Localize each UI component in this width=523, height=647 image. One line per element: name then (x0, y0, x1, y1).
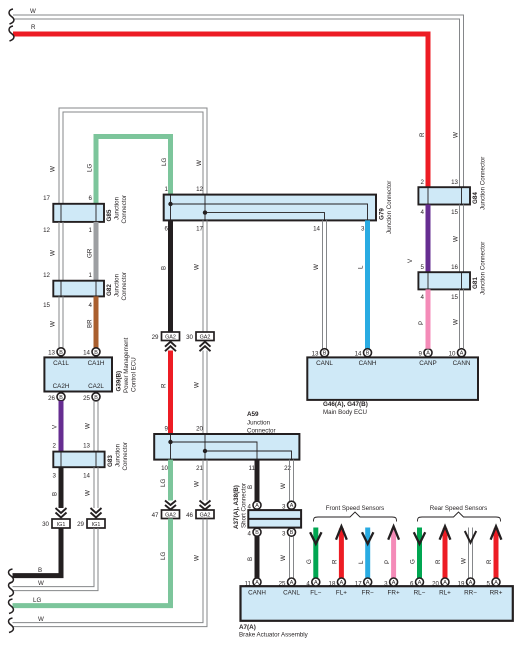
svg-text:12: 12 (43, 272, 50, 279)
sensor wire P FR+ (arrow up) (384, 526, 399, 578)
pin 10 A of G46 (449, 349, 466, 358)
svg-text:R: R (435, 559, 442, 564)
connector 30 GA2 (186, 332, 214, 351)
wire B from G79 pin6 to 29 GA2 (168, 220, 173, 332)
svg-text:CANH: CANH (359, 360, 377, 367)
svg-text:A: A (443, 580, 447, 586)
pin 6 A RL- (410, 578, 423, 588)
svg-text:3: 3 (384, 581, 388, 588)
svg-text:B: B (59, 350, 63, 356)
svg-text:W: W (50, 250, 57, 256)
wire W between G82 and G39 (59, 296, 63, 348)
sensor wire R RL+ (arrow up) (435, 526, 450, 578)
svg-text:W: W (38, 616, 44, 623)
svg-text:47: 47 (152, 512, 159, 519)
svg-text:14: 14 (313, 226, 320, 233)
svg-text:1: 1 (89, 227, 93, 234)
svg-text:12: 12 (196, 186, 203, 193)
svg-text:G85: G85 (106, 209, 113, 221)
wire W from A59 pin21 to 46 GA2 (203, 460, 207, 501)
svg-text:LG: LG (87, 164, 94, 172)
svg-text:GA2: GA2 (200, 335, 211, 341)
pin 25 B of G39 (83, 393, 100, 402)
svg-text:A: A (494, 580, 498, 586)
brace continuation top W (9, 9, 14, 24)
svg-text:3: 3 (282, 531, 286, 538)
svg-text:B: B (161, 266, 168, 270)
pin 18 A FL+ (329, 578, 346, 588)
svg-text:13: 13 (451, 179, 458, 186)
svg-text:LG: LG (160, 552, 167, 560)
svg-text:13: 13 (48, 350, 55, 357)
svg-text:G84: G84 (472, 192, 479, 204)
svg-text:B: B (366, 351, 370, 357)
brace continuation W bottom left (9, 582, 14, 597)
svg-text:A: A (418, 580, 422, 586)
svg-text:W: W (280, 555, 287, 561)
pin 20 A RL+ (432, 578, 449, 588)
sensor wire R FL+ (arrow up) (332, 526, 347, 578)
svg-text:Junction: Junction (114, 196, 121, 220)
pin 4 A FL- (306, 578, 319, 588)
svg-text:FR−: FR− (362, 590, 374, 597)
junction connector G83 (53, 452, 104, 468)
wire B from G83 pin3 to 30 IG1 (59, 467, 64, 508)
wire LG from 47 GA2 down to left edge (13, 519, 171, 606)
svg-text:Junction: Junction (115, 443, 122, 467)
svg-text:RL+: RL+ (439, 590, 451, 597)
wire W from 29 IG1 down to left edge (13, 528, 99, 591)
svg-text:GA2: GA2 (165, 335, 176, 341)
svg-text:BR: BR (87, 319, 94, 328)
wire W from G81 pin15 to G46 pin10 (460, 289, 464, 348)
svg-text:1: 1 (165, 186, 169, 193)
svg-text:W: W (461, 558, 468, 564)
svg-text:A: A (255, 580, 259, 586)
svg-text:A: A (366, 580, 370, 586)
svg-text:G79: G79 (379, 208, 386, 220)
svg-text:19: 19 (458, 581, 465, 588)
svg-text:CA2H: CA2H (53, 383, 70, 390)
wire W from A59 pin22 to short connector 3A (290, 460, 294, 501)
svg-text:W: W (453, 236, 460, 242)
connector 29 IG1 (77, 508, 105, 528)
pin 4 A of short connector (248, 501, 261, 510)
svg-text:Connector: Connector (247, 428, 276, 435)
wire B from short connector 4B to A7 CANH (255, 536, 260, 578)
pin 9 A of G46 (419, 349, 432, 358)
svg-text:RL−: RL− (414, 590, 426, 597)
svg-text:21: 21 (196, 465, 203, 472)
wire W from short connector 3B to A7 CANL (290, 536, 294, 578)
svg-text:CA1L: CA1L (53, 360, 69, 367)
svg-text:W: W (194, 382, 201, 388)
pin 25 A CANL (279, 578, 296, 588)
svg-text:GR: GR (87, 248, 94, 258)
pin 4 B of short connector (248, 528, 261, 537)
svg-text:Rear Speed Sensors: Rear Speed Sensors (430, 505, 487, 512)
svg-text:CANL: CANL (283, 590, 300, 597)
wire W from G83 pin14 to 29 IG1 (94, 467, 98, 508)
svg-text:W: W (85, 490, 92, 496)
svg-text:Control ECU: Control ECU (131, 357, 138, 392)
svg-text:A: A (290, 580, 294, 586)
svg-text:A: A (392, 580, 396, 586)
ECU G46(A), G47(B) Main Body ECU (307, 357, 478, 400)
svg-text:4: 4 (421, 294, 425, 301)
svg-text:R: R (486, 559, 493, 564)
svg-text:A: A (255, 503, 259, 509)
connector 46 GA2 (186, 501, 214, 520)
brace continuation W2 bottom left (9, 618, 14, 633)
svg-text:A: A (460, 351, 464, 357)
svg-text:Connector: Connector (121, 272, 128, 301)
pin 26 B of G39 (48, 393, 65, 402)
svg-text:G39(B): G39(B) (116, 371, 123, 392)
svg-text:10: 10 (161, 465, 168, 472)
svg-text:5: 5 (421, 264, 425, 271)
svg-text:12: 12 (43, 227, 50, 234)
pin 5 A RR+ (487, 578, 500, 588)
svg-text:W: W (453, 319, 460, 325)
wire W from 46 GA2 down to left edge (13, 519, 208, 627)
svg-text:G: G (410, 559, 417, 564)
svg-text:16: 16 (451, 264, 458, 271)
svg-text:2: 2 (53, 443, 57, 450)
svg-text:CA2L: CA2L (88, 383, 104, 390)
connector 47 GA2 (152, 501, 180, 520)
wire B from 30 IG1 down to left edge (13, 528, 62, 576)
pin 13 B of G46 (312, 349, 329, 358)
svg-text:3: 3 (53, 473, 57, 480)
svg-text:GA2: GA2 (165, 513, 176, 519)
svg-text:CA1H: CA1H (88, 360, 105, 367)
wire W from 30 GA2 to A59 pin20 (203, 351, 207, 435)
wire W left loop (G85 pin17 up over to G79 pin12) (59, 108, 207, 204)
svg-text:FL−: FL− (310, 590, 321, 597)
svg-text:13: 13 (83, 443, 90, 450)
wire LG from A59 pin10 to 47 GA2 (168, 460, 173, 501)
wire W from G79 pin17 to 30 GA2 (203, 220, 207, 332)
wire V from G84 pin4 to G81 pin5 (426, 205, 431, 273)
svg-text:R: R (161, 383, 168, 388)
svg-text:17: 17 (355, 581, 362, 588)
wire W from G79 pin14 to G46 pin13 (323, 220, 327, 348)
svg-text:P: P (418, 321, 425, 325)
wire P from G81 pin4 to G46 pin9 (426, 289, 431, 348)
svg-text:30: 30 (186, 334, 193, 341)
svg-text:A: A (426, 351, 430, 357)
svg-text:15: 15 (451, 209, 458, 216)
svg-text:4: 4 (248, 531, 252, 538)
svg-text:W: W (453, 132, 460, 138)
wire BR between G82 and G39 (94, 296, 99, 348)
svg-text:B: B (94, 350, 98, 356)
svg-text:FL+: FL+ (336, 590, 347, 597)
svg-text:2: 2 (421, 179, 425, 186)
svg-text:B: B (38, 567, 42, 574)
svg-text:CANL: CANL (316, 360, 333, 367)
svg-text:FR+: FR+ (388, 590, 400, 597)
svg-text:18: 18 (329, 581, 336, 588)
bracket front speed sensors (314, 512, 397, 522)
svg-text:Brake Actuator Assembly: Brake Actuator Assembly (239, 632, 309, 639)
svg-text:4: 4 (306, 581, 310, 588)
svg-text:11: 11 (249, 465, 256, 472)
pin 17 A FR- (355, 578, 372, 588)
svg-text:3: 3 (361, 226, 365, 233)
svg-text:A: A (469, 580, 473, 586)
svg-text:W: W (85, 423, 92, 429)
svg-text:G81: G81 (472, 277, 479, 289)
svg-text:Connector: Connector (122, 442, 129, 471)
svg-text:Junction Connector: Junction Connector (386, 181, 393, 234)
svg-text:A: A (314, 580, 318, 586)
svg-text:5: 5 (487, 581, 491, 588)
svg-text:B: B (94, 395, 98, 401)
svg-text:30: 30 (42, 521, 49, 528)
wire W between G85 and G82 (59, 222, 63, 281)
brace continuation B bottom left (9, 569, 14, 584)
svg-text:G: G (306, 559, 313, 564)
svg-text:W: W (30, 8, 36, 15)
svg-text:Power Management: Power Management (123, 337, 130, 393)
svg-text:Junction: Junction (114, 273, 121, 297)
svg-text:LG: LG (161, 158, 168, 166)
svg-text:4: 4 (421, 209, 425, 216)
wire GR between G85 and G82 (94, 222, 99, 281)
svg-text:14: 14 (83, 350, 90, 357)
svg-text:CANH: CANH (248, 590, 266, 597)
svg-text:A37(A), A38(B): A37(A), A38(B) (233, 485, 240, 529)
wire LG inner loop (G85 pin6 up over to G79 pin1) (96, 137, 171, 205)
pin 14 B of G39 (83, 348, 100, 357)
junction connector A59 (154, 434, 299, 460)
svg-text:1: 1 (89, 272, 93, 279)
svg-text:4: 4 (89, 302, 93, 309)
sensor wire G RL- (arrow down) (410, 528, 426, 579)
svg-text:Junction: Junction (247, 420, 271, 427)
svg-text:9: 9 (165, 426, 169, 433)
svg-text:29: 29 (77, 521, 84, 528)
junction connector G81 (418, 272, 470, 289)
svg-text:B: B (59, 395, 63, 401)
svg-text:W: W (194, 555, 201, 561)
ECU A7(A) Brake Actuator Assembly (241, 586, 513, 621)
pin 19 A RR- (458, 578, 475, 588)
svg-text:6: 6 (89, 195, 93, 202)
svg-text:W: W (194, 481, 201, 487)
svg-text:22: 22 (284, 465, 291, 472)
svg-text:G83: G83 (107, 455, 114, 467)
junction connector G85 (53, 204, 104, 222)
svg-text:20: 20 (432, 581, 439, 588)
sensor wire L FR- (arrow down) (358, 528, 374, 579)
svg-text:W: W (196, 160, 203, 166)
svg-text:CANP: CANP (419, 360, 437, 367)
svg-text:LG: LG (33, 597, 41, 604)
sensor wire R RR+ (arrow up) (486, 526, 501, 578)
svg-text:IG1: IG1 (92, 522, 101, 528)
svg-text:B: B (52, 492, 59, 496)
connector 30 IG1 (42, 508, 70, 528)
wire R from 29 GA2 to A59 pin9 (168, 351, 173, 435)
svg-text:R: R (332, 559, 339, 564)
sensor wire W RR- (arrow down) (461, 528, 477, 579)
wire B from A59 pin11 to short connector 4A (255, 460, 260, 501)
svg-text:GA2: GA2 (200, 513, 211, 519)
bracket rear speed sensors (418, 512, 501, 522)
svg-text:Junction Connector: Junction Connector (480, 242, 487, 295)
svg-text:LG: LG (160, 479, 167, 487)
svg-text:W: W (50, 166, 57, 172)
svg-text:B: B (255, 530, 259, 536)
svg-text:W: W (313, 264, 320, 270)
svg-text:15: 15 (451, 294, 458, 301)
svg-text:L: L (358, 560, 365, 564)
brace continuation LG bottom left (9, 599, 14, 614)
svg-text:W: W (38, 580, 44, 587)
svg-text:17: 17 (196, 226, 203, 233)
svg-text:Connector: Connector (121, 195, 128, 224)
svg-text:G46(A), G47(B): G46(A), G47(B) (323, 401, 368, 408)
junction connector G79 (164, 195, 376, 221)
svg-text:Short Connector: Short Connector (241, 483, 248, 528)
wire W from G39 pin25 to G83 pin13 (94, 401, 98, 452)
svg-text:CANN: CANN (453, 360, 471, 367)
svg-text:6: 6 (165, 226, 169, 233)
svg-text:14: 14 (83, 473, 90, 480)
svg-text:15: 15 (43, 302, 50, 309)
svg-text:B: B (247, 557, 254, 561)
svg-text:17: 17 (43, 195, 50, 202)
svg-text:B: B (323, 351, 327, 357)
connector 29 GA2 (152, 332, 180, 351)
pin 3 A FR+ (384, 578, 397, 588)
svg-text:A: A (290, 503, 294, 509)
svg-text:20: 20 (196, 426, 203, 433)
wire W top horizontal to G84 column (13, 15, 464, 187)
svg-text:G82: G82 (106, 284, 113, 296)
wire R top horizontal to G84 pin 2 (13, 34, 428, 187)
wire W from G84 pin15 to G81 pin16 (460, 205, 464, 273)
svg-text:A59: A59 (247, 411, 259, 418)
svg-text:Front Speed Sensors: Front Speed Sensors (326, 505, 384, 512)
svg-text:Main Body ECU: Main Body ECU (323, 409, 367, 416)
svg-text:B: B (247, 485, 254, 489)
svg-text:W: W (280, 483, 287, 489)
svg-text:B: B (290, 530, 294, 536)
junction connector G82 (53, 281, 104, 297)
svg-text:W: W (194, 264, 201, 270)
pin 3 B of short connector (282, 528, 295, 537)
wire V from G39 pin26 to G83 pin2 (59, 401, 64, 452)
svg-text:A7(A): A7(A) (239, 624, 256, 631)
junction connector G84 (418, 187, 470, 204)
svg-text:6: 6 (410, 581, 414, 588)
svg-text:A: A (340, 580, 344, 586)
svg-text:RR+: RR+ (490, 590, 503, 597)
pin 3 A of short connector (282, 501, 295, 510)
pin 13 B of G39 (48, 348, 65, 357)
svg-text:46: 46 (186, 512, 193, 519)
svg-text:W: W (50, 321, 57, 327)
svg-text:P: P (384, 560, 391, 564)
svg-text:29: 29 (152, 334, 159, 341)
wire L from G79 pin3 to G46 pin14 (365, 220, 370, 348)
brace continuation top R (9, 26, 14, 41)
svg-text:Junction Connector: Junction Connector (480, 157, 487, 210)
svg-text:R: R (31, 24, 36, 31)
short connector A37(A), A38(B) (248, 510, 301, 527)
sensor wire G FL- (arrow down) (306, 528, 322, 579)
ECU G39(B) Power Management Control ECU (44, 357, 112, 391)
pin 14 B of G46 (355, 349, 372, 358)
svg-text:RR−: RR− (464, 590, 477, 597)
pin 11 A CANH (245, 578, 261, 588)
svg-text:L: L (358, 265, 365, 269)
svg-text:25: 25 (83, 395, 90, 402)
svg-text:26: 26 (48, 395, 55, 402)
svg-text:R: R (419, 132, 426, 137)
svg-text:IG1: IG1 (57, 522, 66, 528)
